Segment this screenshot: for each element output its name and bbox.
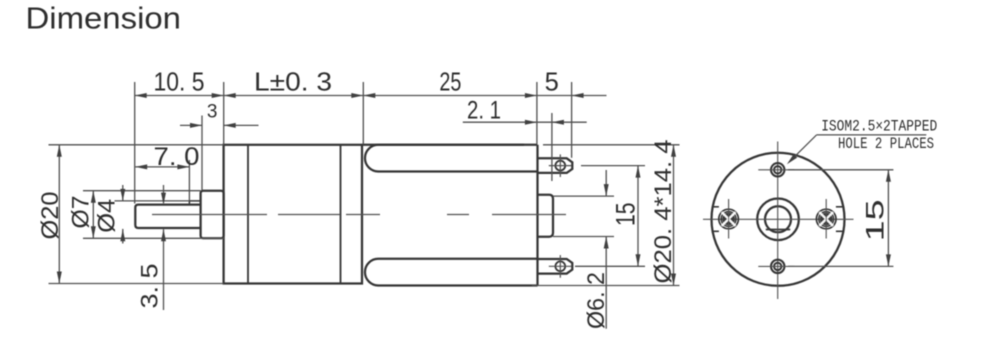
- svg-text:15: 15: [861, 199, 889, 241]
- leader line to tapped hole: [787, 135, 926, 164]
- dimension Ø7 (boss diameter): [67, 191, 96, 239]
- dimension 2.1 (terminal offset): [463, 96, 587, 181]
- output shaft with D-flat: [135, 201, 200, 228]
- svg-text:Dimension: Dimension: [26, 2, 182, 36]
- front view vertical centerline: [777, 142, 779, 300]
- dimension Ø6.2 (brush cap diameter): [583, 170, 610, 329]
- extension lines for front 15: [788, 170, 893, 267]
- dimension text 25: [439, 68, 461, 96]
- gearbox housing: [224, 145, 362, 284]
- front view top tapped hole M2.5: [758, 163, 794, 176]
- extension line at shaft tip: [134, 82, 136, 204]
- note text HOLE 2 PLACES: [838, 135, 934, 153]
- svg-text:7. 0: 7. 0: [154, 143, 200, 171]
- dimension text 10.5: [154, 68, 205, 96]
- dimension 15 (terminal spacing): [610, 166, 640, 267]
- svg-text:3. 5: 3. 5: [137, 264, 164, 309]
- svg-text:Ø20. 4*14. 4: Ø20. 4*14. 4: [650, 140, 677, 284]
- svg-text:5: 5: [545, 68, 559, 96]
- front view gearbox circle: [712, 153, 845, 286]
- extension line at motor rear face: [536, 82, 538, 145]
- extension lines for Ø20: [49, 145, 224, 284]
- dimension Ø20 (gearbox diameter): [37, 145, 64, 284]
- dimension line 10.5 / L±0.3 / 25 / 5: [135, 93, 607, 98]
- motor body: [362, 145, 538, 286]
- front view bearing boss circle: [757, 199, 799, 241]
- svg-text:Ø7: Ø7: [67, 196, 94, 229]
- note text ISOM2.5×2TAPPED: [821, 118, 937, 136]
- dimension Ø20.4*14.4 (motor size): [650, 140, 677, 286]
- extension line at gearbox/motor joint: [362, 82, 364, 145]
- extension line for Ø4: [115, 200, 190, 202]
- dimension 3.5 (shaft flat height): [137, 185, 166, 310]
- dimension text L±0.3: [254, 68, 332, 96]
- dimension 3 (boss length): [180, 102, 259, 191]
- svg-text:Ø20: Ø20: [37, 192, 64, 240]
- terminal T1 (upper): [538, 154, 573, 177]
- svg-text:ISOM2.5×2TAPPED: ISOM2.5×2TAPPED: [821, 118, 937, 136]
- dimension text 5: [545, 68, 559, 96]
- terminal T2 (lower): [538, 255, 573, 278]
- front view right screw hole: [816, 199, 836, 239]
- svg-text:L±0. 3: L±0. 3: [254, 68, 332, 96]
- svg-text:2. 1: 2. 1: [467, 96, 501, 124]
- rear brush cap: [538, 195, 554, 237]
- front view left screw hole: [719, 199, 739, 239]
- svg-text:15: 15: [610, 203, 640, 227]
- front view shaft circle with flat: [765, 206, 791, 232]
- dimension 7.0 (flat length): [135, 143, 199, 201]
- centerline of side view: [152, 214, 566, 216]
- svg-text:10. 5: 10. 5: [154, 68, 205, 96]
- extension lines for 15 (terminal spacing): [575, 166, 645, 267]
- front view right mounting ear lines: [836, 207, 843, 232]
- title Dimension: [26, 2, 182, 36]
- dimension Ø4 (shaft diameter): [93, 185, 125, 244]
- extension line at terminal end: [571, 82, 573, 158]
- front bearing boss: [201, 191, 224, 239]
- svg-text:Ø6. 2: Ø6. 2: [583, 272, 610, 329]
- dimension 15 (hole spacing): [861, 170, 891, 267]
- svg-text:HOLE 2 PLACES: HOLE 2 PLACES: [838, 135, 934, 153]
- svg-text:3: 3: [207, 102, 218, 123]
- extension lines for Ø7: [83, 191, 224, 239]
- extension lines for Ø6.2: [553, 196, 614, 236]
- extension lines for Ø20.4*14.4: [532, 145, 680, 286]
- svg-text:Ø4: Ø4: [93, 199, 120, 233]
- front view horizontal centerline: [703, 218, 854, 220]
- front view left mounting ear lines: [713, 207, 719, 232]
- front view bottom tapped hole M2.5: [758, 260, 794, 273]
- svg-text:25: 25: [439, 68, 461, 96]
- extension line at gearbox face: [223, 82, 225, 145]
